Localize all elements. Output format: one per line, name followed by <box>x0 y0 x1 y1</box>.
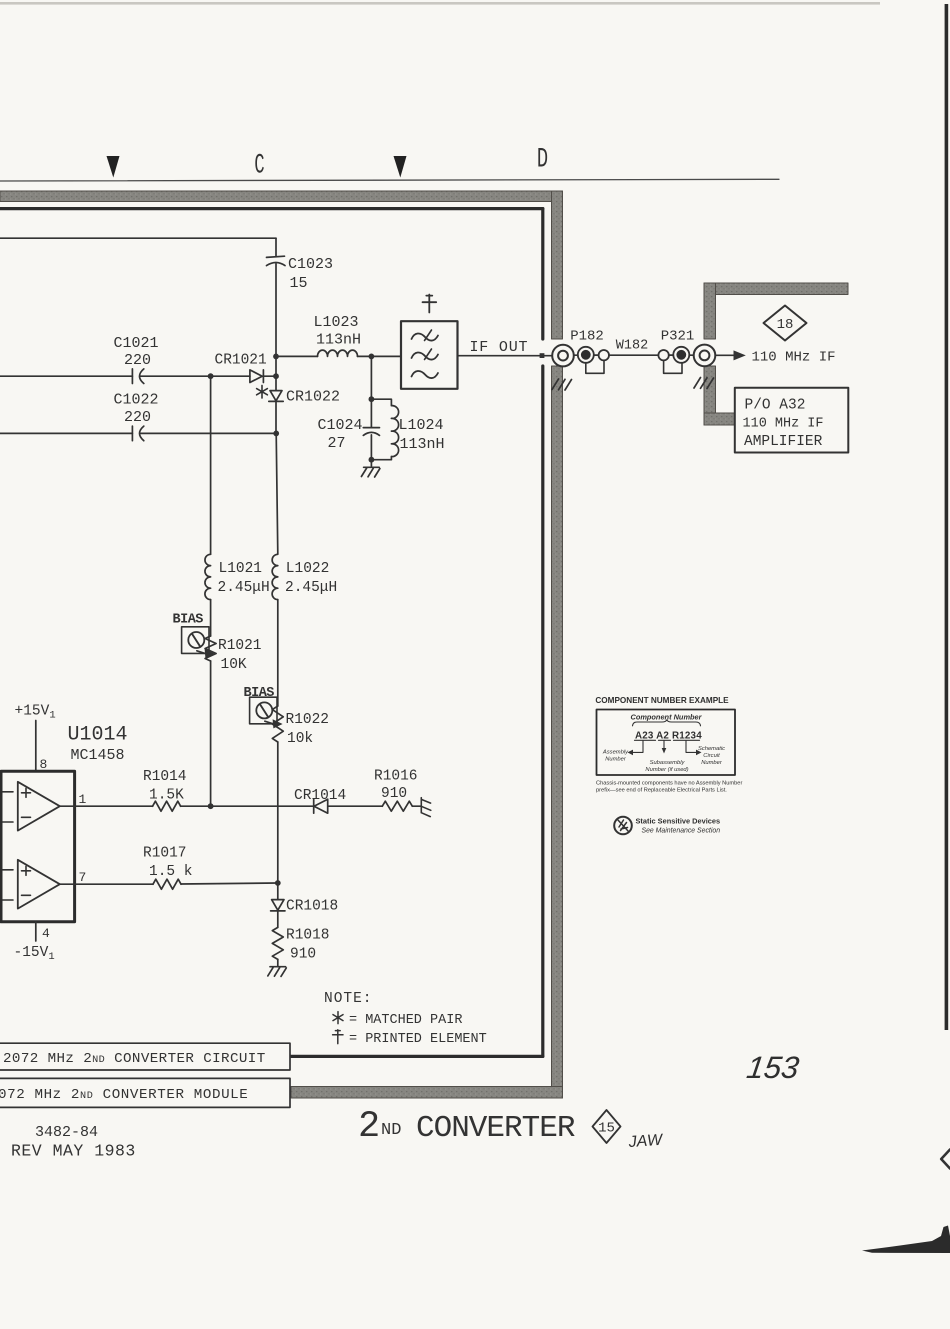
svg-text:D: D <box>537 144 548 176</box>
diode CR1018 <box>271 899 339 915</box>
wire V3 vertical (CR1022 chain) <box>276 433 278 966</box>
static sensitive devices text <box>636 817 721 835</box>
static sensitive devices symbol <box>614 817 632 835</box>
svg-text:R1017: R1017 <box>143 846 187 862</box>
resistor R1022 <box>272 706 329 747</box>
coax jack J1 at border <box>552 345 574 367</box>
ground under coax J2 <box>694 378 714 389</box>
filter FL1 box <box>401 321 458 389</box>
svg-text:+15V1: +15V1 <box>15 704 56 722</box>
sheet number diamond 15 <box>593 1110 621 1143</box>
main border gray band bottom <box>291 1087 563 1099</box>
scan artifact: bottom right black wedge <box>862 1226 950 1254</box>
svg-text:CR1022: CR1022 <box>286 389 340 406</box>
note matched pair line <box>333 1012 462 1028</box>
wire P321 to coax J2 <box>689 354 694 356</box>
node junction C1022/V1 <box>273 431 279 437</box>
svg-text:110 MHz IF: 110 MHz IF <box>743 417 824 432</box>
printed element dagger <box>423 295 437 313</box>
wire IF OUT <box>458 339 553 356</box>
svg-text:27: 27 <box>328 435 346 452</box>
coax jack J2 at A32 border <box>694 345 716 367</box>
svg-text:CR1018: CR1018 <box>286 899 338 915</box>
off-page chassis symbol wire1 end <box>412 798 431 817</box>
svg-text:10K: 10K <box>221 657 247 673</box>
node junction V2/wire1 <box>208 803 214 809</box>
main border gray band top <box>0 191 563 202</box>
scan artifact: chevron mark right edge <box>941 1150 950 1169</box>
op-amp U1014 box <box>1 724 128 922</box>
svg-text:L1022: L1022 <box>286 561 330 577</box>
node junction tank top <box>369 396 375 402</box>
locator triangle 1 <box>107 156 120 178</box>
locator grid line <box>0 179 779 181</box>
svg-text:072 MHz 2ND CONVERTER MODULE: 072 MHz 2ND CONVERTER MODULE <box>0 1087 248 1103</box>
svg-text:C1023: C1023 <box>288 256 333 273</box>
svg-text:110 MHz IF: 110 MHz IF <box>752 350 836 366</box>
A32 border gray band left lower <box>704 366 716 425</box>
svg-text:2072 MHz 2ND CONVERTER CIRCUIT: 2072 MHz 2ND CONVERTER CIRCUIT <box>3 1051 266 1067</box>
capacitor C1024 <box>318 417 380 452</box>
wire V2 vertical (node A to op-amp wire) <box>210 376 212 806</box>
ground R1018 <box>268 967 287 977</box>
sheet title 2nd converter <box>358 1106 575 1148</box>
wire tank vertical <box>370 356 372 466</box>
resistor R1014 <box>143 769 187 811</box>
svg-text:153: 153 <box>745 1050 802 1085</box>
svg-text:P182: P182 <box>570 329 604 345</box>
inductor L1022 <box>272 554 337 599</box>
example number A23 A2 R1234 <box>635 731 703 742</box>
svg-text:COMPONENT NUMBER EXAMPLE: COMPONENT NUMBER EXAMPLE <box>595 696 729 705</box>
svg-text:C1022: C1022 <box>114 392 159 409</box>
scan artifact: top page edge <box>0 2 880 5</box>
svg-text:= MATCHED PAIR: = MATCHED PAIR <box>349 1013 462 1028</box>
svg-text:4: 4 <box>42 926 50 941</box>
svg-text:15: 15 <box>598 1121 615 1137</box>
svg-text:8: 8 <box>40 757 48 772</box>
main border inner black line top <box>0 207 543 210</box>
resistor R1017 <box>143 846 193 890</box>
svg-text:1: 1 <box>79 792 87 807</box>
svg-text:3482-84: 3482-84 <box>35 1124 98 1141</box>
svg-text:L1024: L1024 <box>399 417 444 434</box>
inductor L1021 <box>205 554 270 599</box>
wire vertical node line V1 upper <box>275 238 277 433</box>
A32 border gray band top <box>704 283 848 295</box>
svg-text:18: 18 <box>777 317 794 333</box>
A32 border gray band left upper <box>704 283 716 339</box>
svg-text:P321: P321 <box>661 329 695 345</box>
svg-text:113nH: 113nH <box>316 332 361 349</box>
svg-text:AssemblyNumber: AssemblyNumber <box>602 750 629 763</box>
svg-text:W182: W182 <box>616 339 648 354</box>
svg-text:220: 220 <box>124 352 151 369</box>
main border inner black line right <box>541 209 544 1057</box>
node junction wire1/V2 <box>208 373 214 379</box>
resistor R1016 <box>374 769 418 812</box>
leader subassembly number <box>662 741 667 754</box>
svg-text:1.5K: 1.5K <box>149 788 184 804</box>
svg-text:JAW: JAW <box>627 1132 664 1151</box>
wire C1022 line <box>0 432 276 434</box>
svg-text:R1021: R1021 <box>218 638 262 654</box>
wire inner box top line <box>0 237 276 239</box>
resistor R1021 <box>205 636 261 673</box>
svg-text:7: 7 <box>79 870 87 885</box>
svg-text:SchematicCircuitNumber: SchematicCircuitNumber <box>698 746 725 766</box>
svg-text:CONVERTER: CONVERTER <box>416 1111 575 1146</box>
main border gray band right (above connector gap) <box>552 191 563 339</box>
svg-text:See Maintenance Section: See Maintenance Section <box>642 828 721 835</box>
svg-text:IF OUT: IF OUT <box>470 339 529 356</box>
svg-text:MC1458: MC1458 <box>71 747 125 764</box>
svg-text:Chassis-mounted components hav: Chassis-mounted components have no Assem… <box>596 781 742 794</box>
wire L1023 left <box>276 355 318 357</box>
svg-text:NOTE:: NOTE: <box>324 991 373 1007</box>
svg-text:10k: 10k <box>287 731 313 747</box>
capacitor C1022 <box>114 392 159 441</box>
svg-text:C: C <box>254 150 264 181</box>
matched pair asterisk <box>257 385 268 398</box>
inductor L1024 <box>371 399 444 460</box>
node junction tank <box>369 354 375 360</box>
A32 border gray band bottom <box>704 413 735 425</box>
node junction tank bottom <box>369 457 375 463</box>
svg-text:R1022: R1022 <box>286 712 330 728</box>
svg-text:2.45μH: 2.45μH <box>285 580 337 596</box>
ground under coax J1 <box>552 379 572 390</box>
P/O A32 110 MHz IF amplifier box <box>735 388 849 453</box>
svg-text:2: 2 <box>358 1106 380 1148</box>
svg-text:220: 220 <box>124 409 151 426</box>
potentiometer bias box 2 <box>244 686 283 728</box>
svg-text:REV MAY 1983: REV MAY 1983 <box>11 1142 136 1161</box>
resistor R1018 <box>272 927 329 962</box>
svg-text:1.5 k: 1.5 k <box>149 864 193 880</box>
inductor L1023 <box>314 314 362 356</box>
svg-text:P/O A32: P/O A32 <box>745 398 806 414</box>
svg-text:= PRINTED ELEMENT: = PRINTED ELEMENT <box>349 1032 487 1047</box>
node junction V1/L1023 wire <box>273 354 279 360</box>
svg-text:C1024: C1024 <box>318 417 363 434</box>
main border gray band right (below connector gap) <box>552 366 563 1098</box>
wire C1021 line <box>0 375 250 377</box>
potentiometer bias box 1 <box>173 613 215 659</box>
svg-text:CR1014: CR1014 <box>294 788 346 804</box>
svg-text:910: 910 <box>290 947 316 963</box>
+15V supply label <box>15 704 56 773</box>
node square junction at border <box>540 353 545 358</box>
svg-text:113nH: 113nH <box>400 436 445 453</box>
svg-text:R1014: R1014 <box>143 769 187 785</box>
svg-text:C1021: C1021 <box>114 335 159 352</box>
scan artifact: right page edge line <box>945 4 949 1030</box>
svg-text:2.45μH: 2.45μH <box>218 580 270 596</box>
svg-text:-15V1: -15V1 <box>14 945 55 963</box>
svg-text:AMPLIFIER: AMPLIFIER <box>744 434 823 450</box>
svg-text:R1018: R1018 <box>286 928 330 944</box>
diode CR1014 <box>294 788 382 813</box>
capacitor C1023 <box>267 256 334 292</box>
wire op-amp1 output <box>75 805 314 807</box>
wire L1023 right <box>358 355 402 357</box>
svg-text:15: 15 <box>290 275 308 292</box>
-15V supply label <box>14 922 55 963</box>
title box 2072 MHz 2nd converter module <box>0 1078 290 1107</box>
node junction CR1021/V1 <box>273 373 279 379</box>
svg-text:BIAS: BIAS <box>173 613 204 628</box>
brace <box>633 720 701 726</box>
ground tank <box>361 467 380 477</box>
svg-text:910: 910 <box>381 786 407 802</box>
connector P321 <box>658 329 694 374</box>
diode CR1022 <box>269 389 340 406</box>
svg-text:L1023: L1023 <box>314 314 359 331</box>
svg-text:Static Sensitive Devices: Static Sensitive Devices <box>636 817 721 826</box>
svg-text:L1021: L1021 <box>219 561 263 577</box>
svg-text:CR1021: CR1021 <box>215 353 267 369</box>
component number example box <box>597 710 736 776</box>
capacitor C1021 <box>114 335 159 384</box>
wire op-amp2 output <box>75 883 278 884</box>
op-amp U1014b triangle <box>3 860 87 909</box>
svg-text:U1014: U1014 <box>68 724 128 747</box>
schematic sheet reference diamond 18 <box>764 306 807 341</box>
diode CR1021 <box>215 353 277 383</box>
node junction V3/wire2 <box>275 880 281 886</box>
locator triangle 2 <box>394 156 407 178</box>
leader assembly number <box>628 741 644 755</box>
wire J1 to P182 <box>574 354 578 356</box>
svg-text:ND: ND <box>381 1121 401 1140</box>
note printed element line <box>333 1030 487 1047</box>
title box 2072 MHz 2nd converter circuit <box>0 1043 290 1070</box>
wire 110 MHz IF arrow <box>715 350 835 366</box>
svg-text:SubassemblyNumber (if used): SubassemblyNumber (if used) <box>645 760 688 773</box>
connector P182 <box>570 329 609 374</box>
leader schematic circuit number <box>686 741 702 755</box>
cable W182 wire <box>609 339 658 356</box>
op-amp U1014a triangle <box>3 782 87 831</box>
svg-text:R1016: R1016 <box>374 769 418 785</box>
main border inner black line bottom <box>288 1055 543 1058</box>
